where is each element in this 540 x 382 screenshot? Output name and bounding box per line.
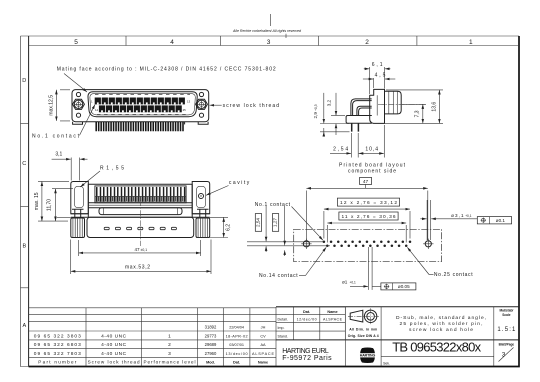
- revision table: [276, 307, 345, 340]
- view4 dim 47 boxed: [365, 185, 367, 189]
- svg-text:CV: CV: [260, 335, 266, 339]
- svg-text:+0,1: +0,1: [350, 280, 357, 284]
- projection symbol box: [345, 307, 381, 366]
- svg-text:09 65 322 6803: 09 65 322 6803: [34, 342, 81, 348]
- svg-text:ø1: ø1: [342, 279, 348, 284]
- svg-text:C: C: [22, 161, 26, 167]
- svg-text:max.53,2: max.53,2: [125, 264, 150, 270]
- svg-text:max. 15: max. 15: [34, 192, 40, 210]
- svg-text:4-40 UNC: 4-40 UNC: [101, 351, 127, 357]
- svg-text:5: 5: [74, 39, 78, 46]
- svg-text:12 x 2,76 = 33,12: 12 x 2,76 = 33,12: [340, 200, 397, 206]
- title block: part table: [29, 307, 276, 366]
- svg-text:ø3,1: ø3,1: [451, 213, 464, 218]
- svg-text:Alle Rechte vorbehalten/ All r: Alle Rechte vorbehalten/ All rights rese…: [232, 29, 302, 33]
- zone dividers top: [125, 36, 127, 46]
- svg-text:1,27: 1,27: [273, 218, 278, 227]
- view1 mounting feet: [73, 122, 209, 125]
- view4 dim 11x2,76 boxed: [327, 225, 406, 243]
- zone dividers left: [21, 122, 29, 124]
- view4 hole callout o3,1: [427, 200, 431, 240]
- svg-text:22/04/04: 22/04/04: [229, 326, 244, 330]
- svg-text:1: 1: [168, 334, 171, 340]
- view1 D-shroud inner: [90, 94, 195, 115]
- svg-text:D: D: [22, 78, 26, 84]
- svg-text:Dat.: Dat.: [233, 360, 240, 364]
- svg-text:25: 25: [183, 108, 187, 112]
- svg-text:10,4: 10,4: [365, 147, 378, 153]
- svg-text:HARTING EURL: HARTING EURL: [282, 348, 329, 355]
- svg-text:Blatt/Page: Blatt/Page: [499, 342, 515, 346]
- view1 D-shroud outer: [88, 92, 197, 117]
- view4 row lines to left: [247, 242, 330, 246]
- svg-text:1: 1: [469, 39, 473, 46]
- svg-text:Screw lock thread: Screw lock thread: [88, 359, 140, 364]
- svg-text:cavity: cavity: [229, 180, 250, 186]
- svg-text:B: B: [22, 244, 26, 250]
- view3 solder pins: [352, 123, 359, 131]
- svg-text:4-40 UNC: 4-40 UNC: [101, 334, 127, 340]
- svg-text:6,1: 6,1: [372, 62, 383, 68]
- svg-text:1.5:1: 1.5:1: [497, 327, 516, 333]
- view1 dim max.12,5: [60, 90, 70, 121]
- view1 connector body: [72, 90, 209, 122]
- svg-text:3: 3: [168, 351, 171, 357]
- view2 flange line: [71, 216, 210, 218]
- svg-text:screw lock and hole: screw lock and hole: [409, 327, 473, 333]
- svg-text:3,1: 3,1: [55, 151, 62, 157]
- svg-text:Part number: Part number: [38, 359, 76, 364]
- svg-text:D-Sub, male, standard angle,: D-Sub, male, standard angle,: [396, 315, 486, 321]
- view3 dim 13,6: [380, 90, 443, 124]
- view1 screw lock left: [73, 99, 85, 109]
- svg-text:TB 0965322x80x: TB 0965322x80x: [392, 339, 481, 354]
- view1 retention dashes: [95, 93, 190, 95]
- view3 bent pin row1: [351, 99, 372, 116]
- svg-text:No.1 contact: No.1 contact: [255, 202, 291, 208]
- svg-text:4: 4: [170, 39, 174, 46]
- view4 board outline (chain): [294, 229, 442, 261]
- svg-text:F-95972 Paris: F-95972 Paris: [282, 355, 332, 362]
- svg-text:Sek.: Sek.: [383, 362, 390, 366]
- svg-text:2: 2: [168, 342, 171, 348]
- svg-text:2,54: 2,54: [333, 147, 348, 153]
- svg-text:A: A: [22, 323, 26, 329]
- svg-text:JH: JH: [261, 326, 266, 330]
- view2 dim 47+-0,1: [79, 240, 201, 256]
- svg-text:No.1 contact: No.1 contact: [32, 133, 80, 139]
- view2 dim max.53,2: [71, 240, 211, 275]
- view4 tolerance frame o0,1: [477, 217, 511, 224]
- svg-text:12/dec/00: 12/dec/00: [297, 318, 317, 322]
- view2 right cavity block: [192, 182, 210, 214]
- svg-text:Mod.: Mod.: [206, 360, 215, 364]
- view2 dim 6,2: [195, 217, 228, 237]
- view4 hole callout o1: [369, 247, 373, 290]
- view3 screw axis: [378, 103, 426, 105]
- view2 mid band: [88, 203, 192, 208]
- svg-text:Orig. Size DIN A 4: Orig. Size DIN A 4: [348, 334, 379, 338]
- view2 lower shell: [87, 217, 194, 237]
- view4 dim 2,54 boxed: [255, 214, 261, 232]
- svg-text:4-40 UNC: 4-40 UNC: [101, 342, 127, 348]
- HARTING logo: [360, 348, 375, 364]
- svg-text:±0,1: ±0,1: [141, 248, 148, 252]
- svg-text:Scale: Scale: [502, 313, 511, 317]
- svg-text:Dat.: Dat.: [303, 310, 310, 314]
- view3 flange: [370, 89, 385, 123]
- view2 shell slots: [104, 227, 109, 229]
- view2 dim max.15: [38, 181, 69, 221]
- svg-text:Performance level: Performance level: [144, 359, 196, 364]
- view4 mounting hole right: [425, 241, 431, 247]
- view3 bracket leg: [346, 116, 372, 124]
- view3 screw knurl: [385, 91, 402, 114]
- svg-text:7,3: 7,3: [414, 110, 420, 117]
- svg-text:31892: 31892: [205, 325, 217, 330]
- view4 dim 12x2,76 boxed: [324, 211, 410, 239]
- svg-text:4,5: 4,5: [375, 73, 386, 79]
- svg-text:14: 14: [95, 108, 99, 112]
- view3 bent pin row2: [357, 106, 372, 115]
- view2 screw barrel left: [71, 209, 89, 218]
- view1 contacts row2 (12): [99, 105, 105, 112]
- svg-text:Imp.: Imp.: [278, 326, 285, 330]
- view1 label screw lock thread: [210, 104, 222, 106]
- svg-text:6,2: 6,2: [226, 224, 232, 231]
- svg-text:ø0.1: ø0.1: [496, 218, 506, 223]
- svg-text:+0,1: +0,1: [465, 214, 472, 218]
- svg-text:All Dim. in mm: All Dim. in mm: [349, 328, 377, 332]
- view4 contact holes row1: [323, 241, 326, 244]
- view2 left cavity block: [71, 182, 89, 214]
- svg-text:component side: component side: [348, 168, 396, 174]
- svg-text:2,9 +0,3: 2,9 +0,3: [313, 104, 318, 118]
- view2 centre line: [139, 200, 141, 246]
- svg-text:18-APR-02: 18-APR-02: [226, 335, 248, 339]
- view1 solder pin comb: [96, 122, 183, 131]
- svg-text:No.14 contact: No.14 contact: [259, 273, 298, 279]
- svg-text:screw lock thread: screw lock thread: [223, 103, 280, 109]
- view2 insulator: [99, 208, 182, 215]
- svg-text:11,70: 11,70: [47, 199, 53, 211]
- view2 contact teeth zone: [95, 186, 186, 203]
- view4 contact holes row2: [326, 245, 329, 248]
- sheet centre fold tick: [270, 14, 272, 26]
- svg-text:ALSPACE: ALSPACE: [252, 352, 274, 356]
- svg-text:max.12,5: max.12,5: [49, 95, 55, 116]
- svg-text:03/07/01: 03/07/01: [229, 343, 244, 347]
- view4 dim 1,27 boxed: [272, 214, 278, 232]
- svg-text:09 65 322 3803: 09 65 322 3803: [34, 334, 81, 340]
- description box: [493, 307, 495, 366]
- view2 top back edge: [88, 183, 192, 185]
- view1 contacts row1 (13): [95, 98, 101, 105]
- svg-text:47: 47: [363, 179, 369, 185]
- svg-text:27960: 27960: [205, 351, 217, 356]
- svg-text:Detail.: Detail.: [278, 318, 288, 322]
- svg-text:Stand.: Stand.: [278, 335, 288, 339]
- svg-text:ALSPACE: ALSPACE: [323, 318, 343, 322]
- svg-text:3: 3: [267, 39, 271, 46]
- svg-text:3,2: 3,2: [327, 99, 332, 106]
- svg-text:47: 47: [135, 247, 141, 252]
- svg-text:09 65 322 7803: 09 65 322 7803: [34, 351, 81, 357]
- svg-text:AA: AA: [260, 343, 266, 347]
- svg-text:29689: 29689: [205, 342, 217, 347]
- svg-text:Name: Name: [327, 310, 337, 314]
- svg-text:2: 2: [365, 39, 369, 46]
- view2 screw barrel right: [192, 209, 210, 218]
- view1 flange holes: [76, 92, 80, 96]
- view3 dim 7,3: [402, 103, 426, 105]
- view4 tolerance frame o0.05: [381, 283, 416, 290]
- svg-text:13,6: 13,6: [431, 102, 437, 112]
- svg-text:2,54: 2,54: [255, 218, 260, 227]
- svg-text:13/dec/00: 13/dec/00: [226, 352, 248, 356]
- svg-text:29773: 29773: [205, 334, 217, 339]
- view4 mounting hole left: [303, 241, 309, 247]
- svg-text:11 x 2,76 = 30,36: 11 x 2,76 = 30,36: [342, 214, 396, 220]
- svg-text:No.25 contact: No.25 contact: [434, 272, 473, 278]
- view1 leader from note: [64, 74, 87, 93]
- svg-text:Mating face according to : MIL: Mating face according to : MIL-C-24308 /…: [57, 67, 276, 73]
- svg-text:13: 13: [187, 100, 191, 104]
- svg-text:HARTING: HARTING: [360, 354, 376, 358]
- view1 screw lock right: [196, 99, 208, 109]
- svg-text:Name: Name: [258, 360, 268, 364]
- view2 dim 11,70: [52, 188, 73, 190]
- svg-text:ø0.05: ø0.05: [398, 284, 410, 289]
